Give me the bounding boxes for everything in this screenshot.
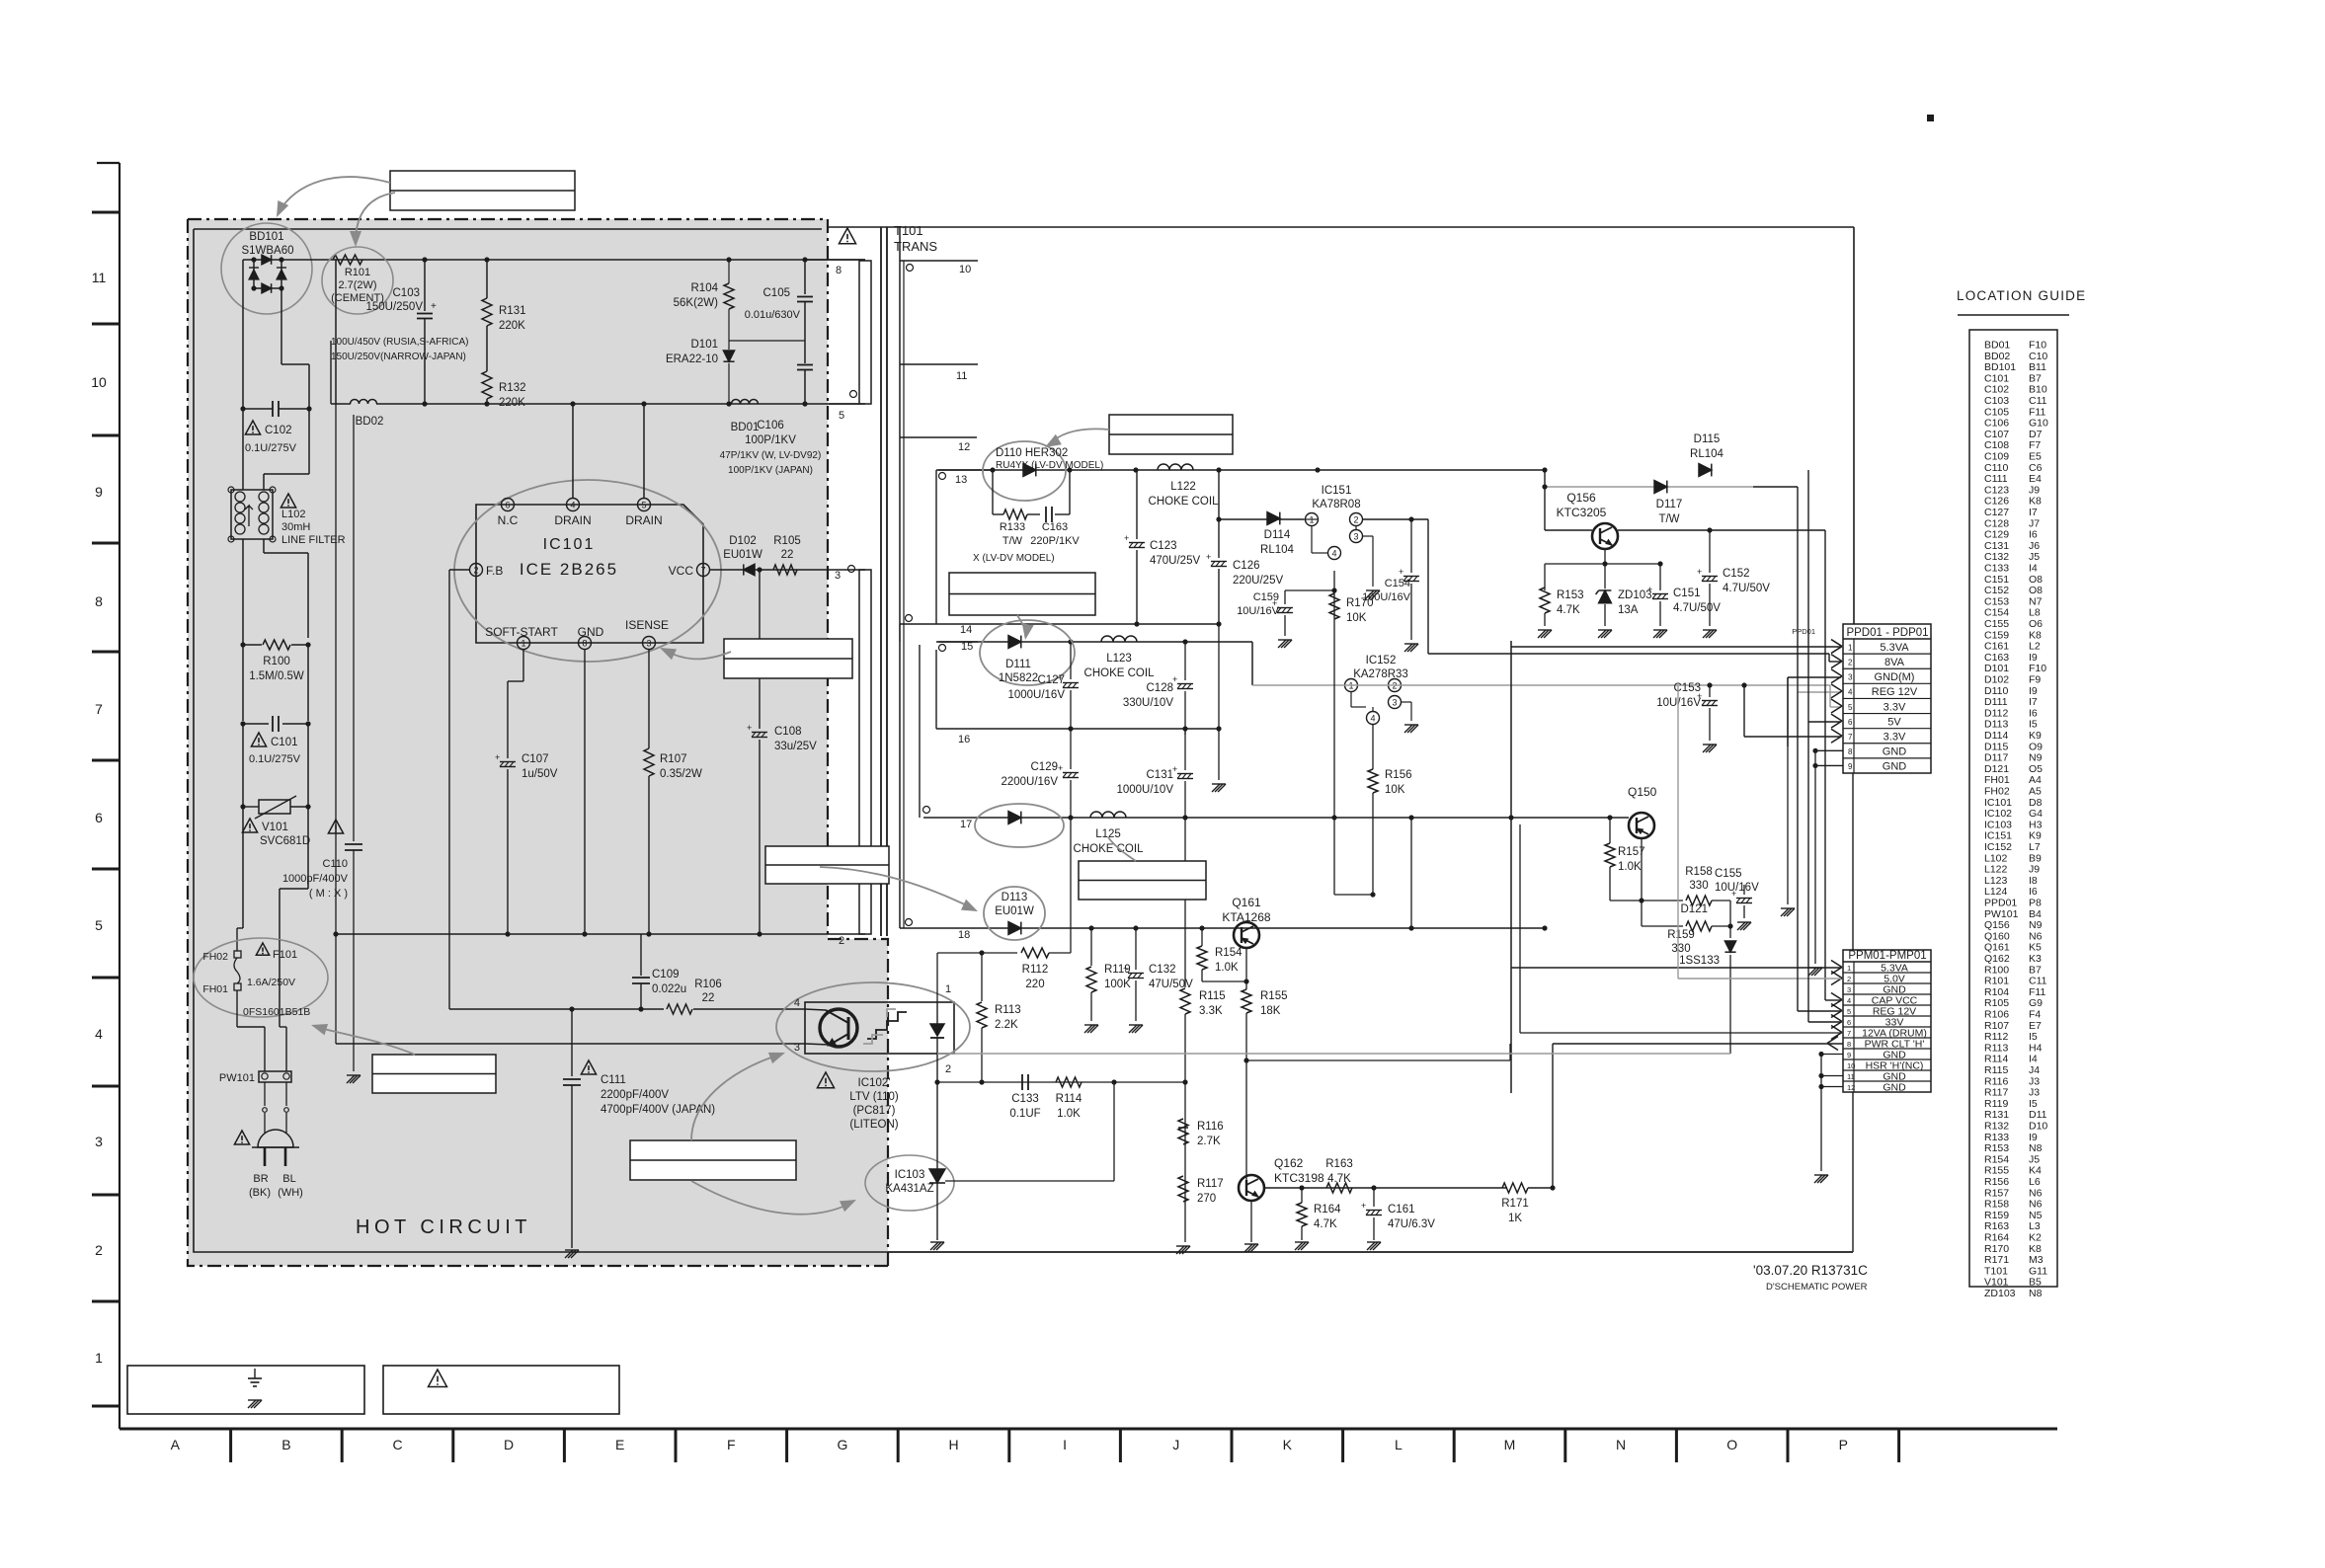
svg-text:1000U/16V: 1000U/16V: [1007, 689, 1065, 701]
earth ground symbol in legend: [254, 1369, 256, 1378]
svg-text:J3: J3: [2029, 1075, 2040, 1087]
capacitor C151 4.7U/50V: [1659, 564, 1661, 590]
capacitor C163 220P/1KV: [1045, 507, 1047, 522]
wire R156 link: [1334, 894, 1373, 896]
svg-text:D101: D101: [1984, 663, 2009, 674]
svg-text:F.B: F.B: [486, 564, 503, 578]
svg-text:B: B: [281, 1437, 290, 1452]
svg-text:1: 1: [95, 1350, 103, 1366]
svg-text:I8: I8: [2029, 875, 2038, 887]
svg-text:J7: J7: [2029, 517, 2040, 529]
svg-text:16: 16: [958, 734, 970, 745]
wire PPM01 row4 feed: [1825, 999, 1841, 1001]
svg-text:L6: L6: [2029, 1176, 2041, 1188]
svg-text:5: 5: [641, 501, 646, 510]
svg-text:K2: K2: [2029, 1232, 2042, 1244]
svg-text:2: 2: [95, 1242, 103, 1258]
svg-text:J5: J5: [2029, 551, 2040, 563]
svg-text:ERA22-10: ERA22-10: [666, 353, 718, 365]
svg-text:C163: C163: [1984, 652, 2009, 664]
resistor R153 4.7K: [1540, 588, 1550, 613]
hot circuit phantom border: [188, 219, 888, 1266]
PPD01 row3 gnd drop: [1787, 677, 1789, 904]
capacitor C131 1000U/10V: [1184, 729, 1186, 770]
svg-text:Q156: Q156: [1566, 491, 1596, 505]
svg-text:47U/50V: 47U/50V: [1149, 979, 1193, 990]
wire PPD row6 feed: [1808, 721, 1841, 723]
svg-text:100K: 100K: [1104, 979, 1131, 990]
svg-text:L: L: [1395, 1437, 1403, 1452]
wire filter to rails: [242, 539, 244, 643]
PPD01 ground drop: [1814, 765, 1816, 964]
svg-text:T/W: T/W: [1658, 513, 1679, 525]
svg-text:M3: M3: [2029, 1254, 2044, 1266]
svg-text:R114: R114: [1984, 1054, 2008, 1065]
svg-text:O5: O5: [2029, 763, 2043, 775]
svg-text:10K: 10K: [1346, 612, 1367, 624]
svg-text:R153: R153: [1984, 1142, 2009, 1154]
svg-text:4: 4: [570, 501, 575, 510]
resistor R171 1K: [1502, 1183, 1528, 1193]
svg-text:O8: O8: [2029, 574, 2043, 586]
svg-text:100U/450V (RUSIA,S-AFRICA): 100U/450V (RUSIA,S-AFRICA): [331, 337, 469, 348]
svg-text:12: 12: [958, 441, 970, 453]
capacitor C159 10U/16V: [1284, 590, 1286, 604]
svg-text:Q161: Q161: [1232, 896, 1261, 909]
wire 13 rail: [938, 469, 1545, 471]
svg-text:I6: I6: [2029, 707, 2038, 719]
wire 18 rail 5.3VA: [900, 927, 1545, 929]
bridge rectifier BD101: [253, 260, 255, 288]
transformer core: [880, 227, 882, 936]
svg-text:9: 9: [1848, 762, 1853, 771]
svg-text:R116: R116: [1984, 1075, 2008, 1087]
svg-text:6: 6: [1847, 1018, 1851, 1027]
wire primary return rail: [336, 933, 865, 935]
svg-text:K4: K4: [2029, 1165, 2042, 1177]
capacitor C127 1000U/16V: [1070, 642, 1072, 679]
svg-text:3: 3: [794, 1042, 800, 1054]
svg-text:D121: D121: [1681, 903, 1709, 915]
leader arrow to F101: [316, 1027, 415, 1055]
wire PPM01 row7 feed: [1519, 824, 1521, 1033]
svg-text:C128: C128: [1147, 682, 1174, 694]
svg-text:R158: R158: [1984, 1199, 2009, 1211]
svg-text:J5: J5: [2029, 1153, 2040, 1165]
svg-text:C155: C155: [1715, 868, 1742, 880]
svg-text:3: 3: [1847, 985, 1851, 994]
svg-text:C159: C159: [1253, 591, 1279, 603]
svg-text:GND: GND: [1883, 1082, 1906, 1094]
svg-text:R164: R164: [1314, 1204, 1341, 1215]
svg-text:3: 3: [646, 639, 651, 649]
svg-text:47U/6.3V: 47U/6.3V: [1388, 1218, 1435, 1230]
svg-text:1000pF/400V: 1000pF/400V: [282, 873, 349, 885]
svg-text:KTC3198: KTC3198: [1274, 1171, 1324, 1185]
svg-text:(LITEON): (LITEON): [849, 1119, 898, 1131]
svg-text:K8: K8: [2029, 1243, 2042, 1255]
svg-text:( M : X ): ( M : X ): [309, 888, 348, 900]
capacitor C108 33u/25V: [759, 570, 761, 729]
wire IC151 pin4 drop: [1333, 571, 1335, 895]
callout note box top: [390, 171, 575, 210]
svg-text:CHOKE COIL: CHOKE COIL: [1074, 843, 1145, 855]
callout note box isense: [724, 639, 852, 678]
wire 14 rail to D111: [978, 623, 1219, 625]
svg-text:C108: C108: [774, 726, 802, 738]
svg-text:3: 3: [835, 570, 841, 582]
svg-text:D113: D113: [1002, 892, 1028, 903]
svg-text:A: A: [171, 1437, 181, 1452]
svg-text:GND: GND: [578, 625, 604, 639]
svg-text:R153: R153: [1557, 589, 1584, 601]
svg-text:11: 11: [956, 370, 967, 382]
svg-text:N8: N8: [2029, 1288, 2043, 1299]
svg-text:B10: B10: [2029, 384, 2047, 396]
resistor R114 1.0K: [1056, 1077, 1082, 1087]
svg-text:17: 17: [960, 819, 972, 830]
svg-text:C152: C152: [1723, 568, 1750, 580]
svg-text:+: +: [431, 301, 437, 312]
svg-text:4.7K: 4.7K: [1327, 1173, 1351, 1185]
svg-text:18: 18: [958, 929, 970, 941]
wire IC103 link: [1113, 1082, 1115, 1181]
svg-text:D111: D111: [1984, 696, 2008, 708]
warning triangle in legend: [429, 1370, 447, 1387]
svg-text:R117: R117: [1984, 1087, 2008, 1099]
svg-text:R100: R100: [263, 656, 290, 667]
capacitor C133 0.1UF: [1021, 1074, 1023, 1090]
svg-text:O9: O9: [2029, 741, 2043, 752]
svg-text:E4: E4: [2029, 473, 2042, 485]
svg-text:12: 12: [1847, 1083, 1855, 1092]
shunt regulator IC103 KA431AZ: [865, 1155, 954, 1211]
svg-text:+: +: [1647, 585, 1652, 594]
resistor R106 22: [449, 1008, 664, 1010]
svg-text:R163: R163: [1325, 1158, 1353, 1170]
svg-text:B9: B9: [2029, 852, 2042, 864]
svg-text:10U/16V: 10U/16V: [1715, 882, 1759, 894]
svg-text:10: 10: [959, 264, 971, 275]
svg-text:270: 270: [1197, 1193, 1216, 1205]
svg-text:2: 2: [839, 935, 844, 947]
svg-text:D: D: [504, 1437, 514, 1452]
svg-text:14: 14: [960, 624, 972, 636]
svg-text:0.1UF: 0.1UF: [1009, 1108, 1040, 1120]
svg-text:J9: J9: [2029, 484, 2040, 496]
hot circuit shaded region: [188, 219, 888, 1266]
wire Q162 emitter to ground: [1250, 1201, 1252, 1242]
svg-text:C127: C127: [1984, 507, 2009, 518]
svg-text:N6: N6: [2029, 930, 2043, 942]
svg-text:150U/250V: 150U/250V: [365, 301, 423, 313]
fuse F101 ellipse: [194, 938, 328, 1017]
svg-text:C133: C133: [1984, 563, 2009, 575]
svg-text:13A: 13A: [1618, 604, 1639, 616]
svg-text:C131: C131: [1147, 769, 1174, 781]
svg-text:C105: C105: [1984, 406, 2009, 418]
svg-text:L122: L122: [1984, 864, 2008, 876]
svg-text:R112: R112: [1022, 964, 1049, 976]
warning and label IC102 LTV (110) (PC817) (LITEON): [817, 1072, 834, 1088]
svg-text:KA278R33: KA278R33: [1353, 668, 1408, 680]
resistor R113 2.2K: [981, 953, 983, 1001]
varistor V101 SVC681D: [240, 804, 245, 809]
svg-text:IC151: IC151: [1984, 830, 2012, 842]
svg-text:8VA: 8VA: [1884, 657, 1905, 668]
svg-text:IC151: IC151: [1322, 485, 1352, 497]
svg-text:C126: C126: [1984, 496, 2009, 508]
svg-text:G10: G10: [2029, 418, 2048, 430]
svg-text:K: K: [1283, 1437, 1293, 1452]
svg-text:1.0K: 1.0K: [1057, 1108, 1081, 1120]
svg-text:F10: F10: [2029, 340, 2046, 352]
wire top bus drop to PPD01: [1853, 227, 1855, 624]
svg-text:C106: C106: [757, 420, 784, 431]
capacitor C101 0.1U/275V: [240, 721, 245, 726]
svg-text:DRAIN: DRAIN: [554, 513, 591, 527]
registration mark black square: [1927, 115, 1934, 121]
svg-text:3: 3: [1848, 673, 1853, 682]
svg-text:13: 13: [955, 474, 967, 486]
ellipse around IC101: [454, 480, 721, 662]
svg-text:D113: D113: [1984, 719, 2008, 731]
wire PPD01 feed rows: [2034, 640, 2036, 647]
svg-text:LOCATION GUIDE: LOCATION GUIDE: [1957, 288, 2086, 303]
svg-text:KA431AZ: KA431AZ: [885, 1183, 933, 1195]
svg-text:C163: C163: [1042, 521, 1068, 533]
ferrite bead BD01: [732, 400, 759, 404]
PPM01 pin8 out arrow: [1827, 1037, 1838, 1051]
resistor R115 3.3K: [1184, 818, 1186, 987]
resistor R101: [333, 255, 362, 265]
svg-text:K5: K5: [2029, 942, 2042, 954]
wire PPD row5 feed: [1829, 685, 1831, 707]
svg-text:G11: G11: [2029, 1265, 2047, 1277]
note box legend warning: [383, 1366, 619, 1414]
ellipse around D112: [975, 804, 1064, 847]
svg-text:C154: C154: [1984, 607, 2009, 619]
svg-text:R132: R132: [499, 382, 526, 394]
resistor R107 0.35/2W: [648, 650, 650, 748]
capacitor C132 47U/50V: [1135, 928, 1137, 970]
svg-text:D110 HER302: D110 HER302: [996, 447, 1068, 459]
svg-text:P: P: [1839, 1437, 1848, 1452]
svg-text:BD101: BD101: [249, 231, 283, 243]
optocoupler IC102 transistor: [820, 1009, 857, 1047]
svg-text:C129: C129: [1031, 761, 1059, 773]
transformer winding 12-13: [900, 436, 977, 438]
transformer winding 18: [906, 919, 913, 926]
svg-text:18K: 18K: [1260, 1005, 1281, 1017]
svg-text:8: 8: [582, 639, 587, 649]
svg-text:C6: C6: [2029, 462, 2043, 474]
svg-text:4: 4: [794, 997, 800, 1009]
resistor R131 220K: [486, 260, 488, 298]
wire drain rail: [425, 403, 865, 405]
svg-text:150U/250V(NARROW-JAPAN): 150U/250V(NARROW-JAPAN): [331, 352, 466, 362]
svg-text:22: 22: [702, 992, 715, 1004]
resistor R170 10K: [1329, 593, 1339, 619]
svg-text:+: +: [1399, 567, 1403, 577]
ellipse around D113: [984, 887, 1045, 940]
svg-text:C10: C10: [2029, 351, 2047, 362]
op-amp IC101 controller outline: [476, 505, 703, 643]
leader arrow to IC103: [691, 1181, 851, 1215]
svg-text:F11: F11: [2029, 406, 2045, 418]
capacitor C126 220U/25V: [1218, 470, 1220, 558]
transformer primary winding 3-2: [859, 570, 871, 934]
capacitor C106 second plate: [797, 364, 813, 366]
svg-text:R171: R171: [1984, 1254, 2009, 1266]
capacitor C155 10U/16V: [1743, 885, 1745, 895]
diode D113 EU01W: [1008, 922, 1021, 935]
svg-text:J4: J4: [2029, 1064, 2040, 1076]
capacitor C153 10U/16V: [1709, 685, 1711, 697]
svg-text:D101: D101: [691, 339, 719, 351]
svg-text:C107: C107: [521, 753, 549, 765]
svg-text:P8: P8: [2029, 898, 2042, 909]
ground rail stub: [1852, 773, 1854, 950]
svg-text:B7: B7: [2029, 964, 2042, 976]
wire right bus verticals: [1797, 487, 1799, 692]
svg-text:VCC: VCC: [669, 564, 694, 578]
svg-text:H3: H3: [2029, 819, 2043, 830]
svg-text:4: 4: [1331, 549, 1336, 559]
svg-text:A4: A4: [2029, 774, 2042, 786]
svg-text:3.3V: 3.3V: [1884, 731, 1906, 743]
resistor R156 10K: [1372, 725, 1374, 769]
optocoupler LED diode: [930, 1024, 944, 1036]
svg-text:47P/1KV (W, LV-DV92): 47P/1KV (W, LV-DV92): [720, 450, 822, 461]
wire top bus 8VA: [829, 226, 1854, 228]
svg-text:Q156: Q156: [1984, 919, 2010, 931]
svg-text:B11: B11: [2029, 361, 2046, 373]
snubber R133 T/W: [992, 470, 994, 514]
svg-text:IC102: IC102: [1984, 808, 2012, 820]
svg-text:R155: R155: [1260, 990, 1288, 1002]
svg-text:1.0K: 1.0K: [1215, 962, 1239, 974]
resistor R100 1.5M/0.5W: [240, 642, 245, 647]
svg-text:+: +: [1058, 763, 1063, 773]
svg-text:BD01: BD01: [731, 422, 760, 433]
wire Q156 emitter: [1604, 549, 1606, 564]
svg-text:D121: D121: [1984, 763, 2009, 775]
svg-text:11: 11: [1847, 1072, 1855, 1081]
svg-text:30mH: 30mH: [281, 521, 310, 533]
svg-text:6: 6: [505, 501, 510, 510]
svg-text:E7: E7: [2029, 1020, 2042, 1032]
wire B+ rail: [243, 259, 865, 261]
svg-text:IC103: IC103: [895, 1169, 925, 1181]
wire PPM01 row5 feed: [1797, 692, 1799, 1011]
wire 15 rail: [938, 641, 1252, 643]
svg-text:7: 7: [700, 566, 705, 576]
resistor R105 22: [773, 565, 797, 575]
wire R171 to PWR CLT: [1553, 1043, 1843, 1045]
svg-text:SOFT-START: SOFT-START: [485, 625, 558, 639]
svg-text:I6: I6: [2029, 886, 2038, 898]
PPD01 input arrows: [1831, 640, 1842, 654]
svg-text:C132: C132: [1149, 964, 1176, 976]
svg-text:M: M: [1504, 1437, 1516, 1452]
optocoupler IC102 box: [805, 1002, 954, 1054]
svg-text:GND: GND: [1883, 761, 1907, 773]
svg-text:R104: R104: [1984, 986, 2009, 998]
svg-text:I: I: [1063, 1437, 1067, 1452]
IC101 pin 3 ISENSE: [643, 637, 656, 650]
note box legend grounds: [127, 1366, 364, 1414]
svg-text:L2: L2: [2029, 641, 2041, 653]
svg-text:BD02: BD02: [1984, 351, 2010, 362]
svg-text:K8: K8: [2029, 629, 2042, 641]
svg-text:O6: O6: [2029, 618, 2043, 630]
ruler tick marks bottom: [229, 1429, 232, 1462]
svg-text:+: +: [1361, 1201, 1366, 1211]
svg-text:2: 2: [1848, 658, 1853, 666]
svg-text:X (LV-DV MODEL): X (LV-DV MODEL): [973, 553, 1055, 564]
svg-text:1: 1: [1848, 643, 1853, 652]
svg-text:C154: C154: [1385, 578, 1410, 589]
location guide table box: [1969, 330, 2057, 1287]
svg-text:+: +: [1206, 552, 1211, 562]
IC101 pin 6 N.C: [502, 499, 515, 511]
wire IC102 pin3 return: [335, 934, 337, 1044]
svg-text:C128: C128: [1984, 517, 2009, 529]
callout note box d113: [765, 846, 889, 884]
svg-text:C103: C103: [393, 287, 421, 299]
svg-text:0.1U/275V: 0.1U/275V: [249, 753, 301, 765]
transformer winding 15-16: [936, 641, 978, 643]
svg-text:+: +: [1697, 567, 1702, 577]
svg-text:BD02: BD02: [356, 416, 384, 428]
svg-text:0.022u: 0.022u: [652, 983, 686, 995]
svg-text:R159: R159: [1984, 1210, 2009, 1221]
svg-text:C123: C123: [1984, 484, 2009, 496]
wire gray feedback rail: [937, 1053, 1730, 1055]
svg-text:F4: F4: [2029, 1009, 2041, 1021]
chassis ground symbol in legend: [248, 1400, 262, 1408]
diode D112: [1008, 812, 1021, 824]
svg-text:I4: I4: [2029, 563, 2038, 575]
wire PPM01 row2 feed: [1678, 978, 1841, 980]
svg-text:V101: V101: [262, 822, 288, 833]
svg-text:22: 22: [781, 549, 794, 561]
svg-text:PPD01 - PDP01: PPD01 - PDP01: [1846, 627, 1928, 639]
IC101 pin 8 GND: [579, 637, 592, 650]
wire bridge neg to filter: [308, 409, 310, 474]
diode D114 RL104: [1219, 518, 1304, 520]
wire regulator cap rail: [1545, 563, 1660, 565]
svg-text:5: 5: [1848, 703, 1853, 712]
svg-text:L102: L102: [281, 509, 305, 520]
svg-text:C103: C103: [1984, 395, 2009, 407]
svg-text:IC103: IC103: [1984, 819, 2012, 830]
IC101 pin 2 F.B: [470, 564, 483, 577]
svg-text:4.7K: 4.7K: [1314, 1218, 1337, 1230]
svg-text:T101: T101: [1984, 1265, 2008, 1277]
svg-text:L7: L7: [2029, 841, 2041, 853]
svg-text:330: 330: [1689, 880, 1708, 892]
ellipse around D111: [980, 620, 1075, 685]
svg-text:3: 3: [1392, 698, 1397, 708]
svg-text:(WH): (WH): [278, 1187, 303, 1199]
diode D121 1SS133: [1729, 926, 1731, 938]
svg-text:1.0K: 1.0K: [1618, 861, 1642, 873]
svg-text:3: 3: [95, 1134, 103, 1149]
capacitor C107 1u/50V: [522, 650, 524, 681]
optocoupler coupling symbol: [867, 1012, 907, 1039]
